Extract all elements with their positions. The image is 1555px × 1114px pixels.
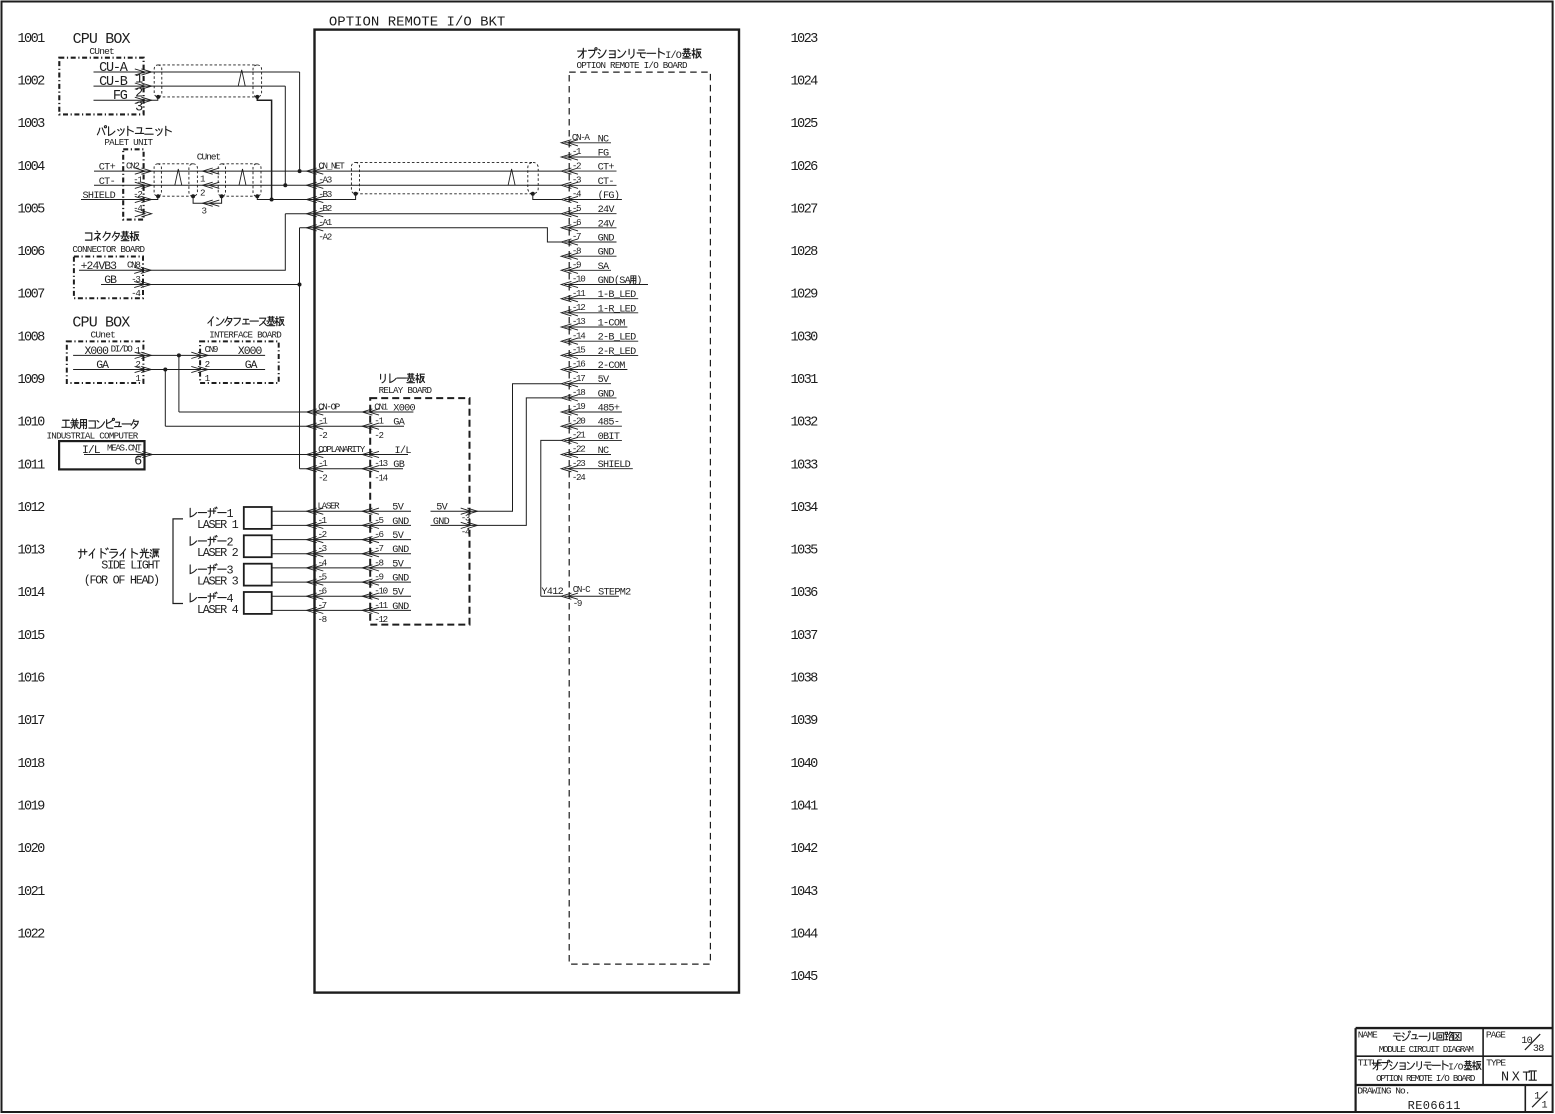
svg-text:-2: -2: [318, 472, 327, 483]
junction cable1 right: [191, 194, 195, 198]
wire laser2 5V: [272, 539, 411, 541]
svg-text:1030: 1030: [791, 330, 819, 345]
svg-text:1028: 1028: [791, 245, 819, 260]
svg-text:-7: -7: [374, 543, 383, 554]
wire GB to relay -13: [300, 468, 404, 470]
pin arrow FG: [135, 97, 152, 103]
svg-text:-8: -8: [572, 245, 581, 256]
junction internal shield right: [531, 192, 535, 196]
pin arrow CN-C: [561, 593, 578, 599]
wire GA: [73, 369, 265, 371]
svg-text:1015: 1015: [18, 629, 46, 644]
pin underline CN-A-5: [565, 213, 617, 215]
svg-text:1031: 1031: [791, 373, 819, 388]
svg-text:DI/DO: DI/DO: [111, 343, 134, 354]
pin underline CN-A-6: [565, 227, 617, 229]
wire I/L to relay: [84, 454, 408, 456]
svg-text:CUnet: CUnet: [197, 152, 221, 163]
svg-text:-B2: -B2: [318, 203, 331, 214]
svg-text:GND: GND: [392, 545, 409, 556]
component PALET UNIT connector box: [123, 149, 143, 219]
pin arrow LASER row 3: [307, 551, 324, 557]
svg-text:-9: -9: [572, 260, 581, 271]
svg-text:INTERFACE BOARD: INTERFACE BOARD: [209, 329, 282, 340]
svg-text:-9: -9: [374, 572, 383, 583]
svg-text:38: 38: [1533, 1044, 1544, 1055]
twisted pair symbol (palet cable 1): [175, 169, 182, 185]
pin underline CN-A-2: [565, 170, 617, 172]
svg-text:SHIELD: SHIELD: [598, 460, 631, 471]
kanji 用: [630, 276, 636, 284]
svg-text:I/L: I/L: [82, 445, 101, 457]
svg-text:1005: 1005: [18, 202, 46, 217]
pin underline CN-A-23: [565, 468, 633, 470]
svg-text:RE06611: RE06611: [1408, 1099, 1461, 1113]
junction GA riser: [163, 368, 167, 372]
svg-text:I/O: I/O: [1448, 1062, 1464, 1073]
wire 5V to CN-A-17: [431, 384, 562, 512]
svg-text:1038: 1038: [791, 672, 819, 687]
cable shield palet cable 2: [218, 164, 261, 196]
pin arrow CN-A-13: [561, 324, 578, 330]
svg-text:5V: 5V: [598, 375, 610, 386]
wire STEPM2 underline: [565, 595, 619, 597]
svg-text:1004: 1004: [18, 160, 46, 175]
svg-text:1017: 1017: [18, 714, 46, 729]
pin arrow CN-A-1: [561, 154, 578, 160]
svg-text:-2: -2: [318, 430, 327, 441]
junction shield right: [255, 95, 259, 99]
svg-text:1033: 1033: [791, 458, 819, 473]
pin arrow CN-A-18: [561, 395, 578, 401]
svg-text:1041: 1041: [791, 800, 819, 815]
svg-text:1043: 1043: [791, 885, 819, 900]
pin arrow CN-A-2: [561, 168, 578, 174]
pin arrow relay laser row 0: [362, 508, 379, 514]
svg-text:CT+: CT+: [99, 163, 116, 174]
pin arrow CN2-4: [135, 211, 152, 217]
svg-text:MODULE CIRCUIT DIAGRAM: MODULE CIRCUIT DIAGRAM: [1379, 1044, 1474, 1055]
wire Y412 to CN-C: [541, 595, 562, 597]
svg-text:1032: 1032: [791, 416, 819, 431]
sheet slash: [1532, 1092, 1547, 1108]
svg-text:LASER: LASER: [318, 501, 341, 512]
title モジュール回路図: [1393, 1031, 1461, 1041]
component LASER 1 head: [244, 507, 272, 529]
svg-text:2-R_LED: 2-R_LED: [598, 347, 636, 358]
pin arrow relay laser row 1: [362, 522, 379, 528]
svg-text:CN2: CN2: [126, 161, 139, 172]
pin arrow mid 1: [203, 168, 220, 174]
wire laser4 GND: [272, 609, 411, 611]
pin arrow COPLANARITY: [307, 451, 324, 457]
svg-text:1027: 1027: [791, 202, 819, 217]
wire GB: [101, 284, 300, 286]
svg-text:CT+: CT+: [598, 163, 615, 174]
svg-text:-12: -12: [572, 302, 585, 313]
svg-text:-13: -13: [572, 316, 585, 327]
pin arrow CN-A-20: [561, 423, 578, 429]
svg-text:GND: GND: [598, 234, 615, 245]
svg-text:RELAY BOARD: RELAY BOARD: [379, 385, 433, 396]
component CPU BOX CUnet connector box: [59, 58, 143, 115]
wire CU-A: [94, 71, 300, 73]
svg-text:(FOR OF HEAD): (FOR OF HEAD): [84, 573, 159, 587]
pin arrow CN-OP: [307, 409, 324, 415]
svg-text:GND: GND: [392, 517, 409, 528]
pin arrow CN-A-14: [561, 338, 578, 344]
twisted pair symbol (CPU cable): [238, 70, 245, 86]
pin arrow CN_NET A3: [307, 182, 324, 188]
cable shield palet cable 1: [154, 164, 197, 196]
wire CT- (palet to CN-A-3): [94, 184, 561, 186]
svg-text:GA: GA: [96, 360, 109, 372]
svg-text:GA: GA: [393, 418, 405, 429]
label コネクタ基板: [85, 231, 139, 241]
pin underline CN-A-1: [565, 156, 612, 158]
junction SHIELD-cable1: [156, 194, 160, 198]
svg-text:X000: X000: [393, 404, 415, 415]
svg-text:-9: -9: [573, 598, 582, 609]
svg-text:(FG): (FG): [598, 190, 620, 202]
svg-text:1024: 1024: [791, 74, 819, 89]
pin underline CN-A-22: [565, 454, 612, 456]
svg-text:1009: 1009: [18, 373, 46, 388]
pin arrow CN-A-6: [561, 225, 578, 231]
svg-text:1008: 1008: [18, 330, 46, 345]
svg-text:1011: 1011: [18, 458, 46, 473]
svg-text:-19: -19: [572, 401, 585, 412]
component LASER 4 head: [244, 592, 272, 614]
wire laser2 GND: [272, 553, 411, 555]
svg-text:-24: -24: [572, 472, 586, 483]
svg-text:LASER 1: LASER 1: [197, 518, 239, 532]
svg-text:GND: GND: [433, 517, 450, 528]
svg-text:GA: GA: [245, 360, 258, 372]
label レーザー4: [190, 592, 226, 602]
label インタフェース基板: [208, 316, 284, 325]
label 工業用コンピュータ: [62, 418, 138, 428]
pin arrow CN2-2 SHIELD: [135, 196, 152, 202]
svg-text:485+: 485+: [598, 404, 620, 415]
pin arrow CN-A-11: [561, 296, 578, 302]
svg-text:SHIELD: SHIELD: [83, 191, 116, 202]
pin underline CN-A-3: [565, 184, 617, 186]
wire GA riser down: [164, 370, 166, 427]
svg-text:1019: 1019: [18, 800, 46, 815]
svg-text:CN-A: CN-A: [572, 132, 590, 143]
svg-text:-5: -5: [318, 572, 327, 583]
svg-text:I/L: I/L: [395, 445, 412, 457]
svg-text:-18: -18: [572, 387, 585, 398]
svg-text:GB: GB: [393, 460, 404, 471]
pin arrow LASER row 5: [307, 579, 324, 585]
svg-text:GND: GND: [392, 602, 409, 613]
svg-text:-15: -15: [572, 345, 585, 356]
pin arrow CU-A: [135, 69, 152, 75]
svg-text:CN1: CN1: [374, 401, 388, 412]
wire FG to cable shield: [94, 97, 158, 100]
wire X000: [73, 354, 265, 356]
twisted pair symbol (internal cable): [508, 169, 515, 185]
svg-text:-11: -11: [374, 600, 388, 611]
pin underline CN-A-0: [565, 142, 612, 144]
svg-text:5V: 5V: [392, 531, 404, 542]
pin arrow X000 (CPU): [135, 352, 152, 358]
svg-text:1002: 1002: [18, 74, 46, 89]
svg-text:NAME: NAME: [1358, 1030, 1378, 1041]
svg-text:SIDE LIGHT: SIDE LIGHT: [101, 559, 160, 573]
pin arrow CN-A-15: [561, 352, 578, 358]
svg-text:1020: 1020: [18, 842, 46, 857]
pin arrow CN-A-19: [561, 409, 578, 415]
junction CU-A / CT+: [298, 169, 302, 173]
wire B2/24V row to CN-A-5: [285, 213, 561, 215]
wire CT+ (palet to CN-A-2): [94, 170, 561, 172]
pin arrow CN9 X000: [191, 352, 208, 358]
label レーザー3: [190, 564, 226, 574]
pin arrow relay-13 GB: [362, 466, 379, 472]
pin arrow GA (CPU): [135, 366, 152, 372]
svg-text:-2: -2: [374, 430, 383, 441]
svg-text:1007: 1007: [18, 288, 46, 303]
svg-text:-6: -6: [572, 217, 581, 228]
svg-text:1021: 1021: [18, 885, 46, 900]
bracket side light group: [173, 519, 183, 604]
component CONNECTOR BOARD box: [74, 257, 143, 299]
svg-text:-3: -3: [318, 543, 327, 554]
svg-text:10: 10: [1521, 1036, 1532, 1047]
svg-text:-10: -10: [572, 274, 585, 285]
svg-text:1: 1: [1534, 1092, 1540, 1103]
pin arrow COPLANARITY-1: [307, 466, 324, 472]
pin arrow relay right 5V: [461, 508, 478, 514]
svg-text:SA: SA: [598, 262, 610, 273]
pin underline CN-A-14: [565, 340, 639, 342]
junction internal shield left: [354, 192, 358, 196]
svg-text:LASER 2: LASER 2: [197, 546, 239, 560]
pin arrow CN-A-17: [561, 381, 578, 387]
svg-text:1012: 1012: [18, 501, 46, 516]
svg-text:-21: -21: [572, 430, 586, 441]
svg-text:-23: -23: [572, 458, 585, 469]
svg-text:1026: 1026: [791, 160, 819, 175]
pin arrow CN-A-9: [561, 267, 578, 273]
pin underline CN-A-4: [565, 199, 622, 201]
pin arrow LASER row 0: [307, 508, 324, 514]
svg-text:OPTION REMOTE I/O BOARD: OPTION REMOTE I/O BOARD: [577, 60, 688, 71]
wire laser3 5V: [272, 567, 411, 569]
pin underline CN-A-18: [565, 397, 617, 399]
svg-text:-A2: -A2: [318, 231, 331, 242]
svg-text:-8: -8: [318, 614, 327, 625]
wire CU-B riser: [284, 86, 286, 185]
svg-text:CU-A: CU-A: [99, 61, 129, 76]
pin arrow CN2 CT+: [135, 168, 152, 174]
svg-text:1014: 1014: [18, 586, 46, 601]
label オプションリモートI/O基板: [578, 48, 702, 62]
pin underline CN-A-20: [565, 425, 622, 427]
pin arrow CN1: [362, 409, 379, 415]
svg-text:-12: -12: [374, 614, 387, 625]
pin arrow LASER row 1: [307, 522, 324, 528]
svg-text:-5: -5: [572, 203, 581, 214]
svg-text:-22: -22: [572, 444, 585, 455]
svg-text:+24VB3: +24VB3: [81, 261, 117, 273]
pin arrow LASER row 6: [307, 593, 324, 599]
svg-text:-7: -7: [318, 600, 327, 611]
svg-text:GND: GND: [598, 389, 615, 400]
svg-text:-8: -8: [374, 557, 383, 568]
pin underline CN-A-15: [565, 354, 639, 356]
svg-text:-5: -5: [374, 515, 383, 526]
svg-text:GND: GND: [598, 248, 615, 259]
component LASER 2 head: [244, 535, 272, 557]
junction shield riser / B3: [270, 198, 274, 202]
svg-text:CN8: CN8: [127, 260, 140, 271]
svg-text:GND(SA: GND(SA: [598, 275, 632, 287]
wire X000 to relay CN1: [179, 411, 414, 413]
svg-text:1029: 1029: [791, 288, 819, 303]
wire cable2 shield to B3 row: [257, 196, 271, 199]
pin arrow CN-A-12: [561, 310, 578, 316]
pin arrow relay I/L: [362, 451, 379, 457]
pin underline CN-A-7: [565, 241, 617, 243]
svg-text:1-COM: 1-COM: [598, 319, 626, 330]
svg-text:1-R_LED: 1-R_LED: [598, 304, 636, 315]
junction FG-shield left: [156, 95, 160, 99]
svg-text:485-: 485-: [598, 418, 620, 429]
svg-text:-14: -14: [572, 330, 586, 341]
svg-text:-A3: -A3: [318, 175, 331, 186]
wire GND to CN-A-18: [431, 398, 562, 526]
svg-text:1003: 1003: [18, 117, 46, 132]
svg-text:1-B_LED: 1-B_LED: [598, 290, 636, 301]
svg-text:1036: 1036: [791, 586, 819, 601]
svg-text:-7: -7: [572, 231, 581, 242]
pin underline CN-A-12: [565, 312, 639, 314]
junction CU-B / CT-: [283, 183, 287, 187]
svg-text:STEPM2: STEPM2: [598, 588, 631, 599]
label レーザー2: [190, 536, 226, 546]
svg-text:-13: -13: [374, 458, 387, 469]
pin arrow CN8 +24VB3: [134, 267, 151, 273]
wire SHIELD to cable1 shield: [81, 196, 158, 199]
svg-text:1037: 1037: [791, 629, 819, 644]
svg-text:-20: -20: [572, 415, 585, 426]
pin underline CN-A-21: [565, 439, 622, 441]
pin underline CN-A-9: [565, 269, 612, 271]
pin underline CN-A-10: [565, 284, 649, 286]
pin arrow CN9-2 GA: [191, 366, 208, 372]
pin arrow computer I/L: [136, 451, 153, 457]
pin arrow relay laser row 5: [362, 579, 379, 585]
svg-text:1039: 1039: [791, 714, 819, 729]
wire +24VB3 riser to B2 row: [79, 214, 285, 271]
pin underline CN-A-11: [565, 298, 639, 300]
svg-text:CT-: CT-: [598, 177, 614, 188]
wire laser1 GND: [272, 524, 411, 526]
svg-text:COPLANARITY: COPLANARITY: [318, 444, 366, 455]
svg-text:0BIT: 0BIT: [598, 432, 620, 443]
pin arrow relay laser row 2: [362, 537, 379, 543]
svg-text:1042: 1042: [791, 842, 819, 857]
svg-text:1040: 1040: [791, 757, 819, 772]
svg-text:1035: 1035: [791, 544, 819, 559]
pin arrow CN_NET CN_NET: [307, 168, 324, 174]
svg-text:-16: -16: [572, 359, 585, 370]
svg-text:OPTION REMOTE I/O BKT: OPTION REMOTE I/O BKT: [329, 14, 505, 30]
svg-text:5V: 5V: [392, 559, 404, 570]
svg-text:CN-OP: CN-OP: [318, 401, 341, 412]
wire X000 riser down: [178, 355, 180, 412]
wire B3 row to internal shield left: [272, 194, 356, 200]
svg-text:5V: 5V: [392, 503, 404, 514]
component INTERFACE BOARD box: [200, 341, 279, 383]
svg-text:CN-C: CN-C: [573, 584, 591, 595]
pin arrow CN-A-A: [561, 140, 578, 146]
pin arrow mid 3: [203, 200, 220, 206]
svg-text:-A1: -A1: [318, 217, 332, 228]
cable shield CN_NET internal: [351, 162, 538, 193]
svg-text:X000: X000: [238, 346, 263, 358]
title block: [1356, 1028, 1553, 1112]
svg-text:-17: -17: [572, 373, 585, 384]
svg-text:-2: -2: [572, 160, 581, 171]
svg-text:): ): [636, 275, 641, 287]
wire GA to relay CN1-1: [165, 425, 404, 427]
enclosure OPTION REMOTE I/O BKT box: [315, 30, 740, 993]
pin arrow relay right GND: [461, 522, 478, 528]
svg-text:CUnet: CUnet: [89, 46, 114, 57]
pin arrow relay laser row 4: [362, 565, 379, 571]
svg-text:CN9: CN9: [205, 344, 218, 355]
svg-text:1: 1: [1542, 1101, 1548, 1112]
pin arrow LASER row 4: [307, 565, 324, 571]
left grid numbers 1001-1022: [18, 32, 46, 943]
svg-text:-B3: -B3: [318, 189, 331, 200]
pin arrow CN-A-8: [561, 253, 578, 259]
wire Y412 riser to CN-A-21 0BIT: [541, 440, 562, 596]
board OPTION REMOTE I/O BOARD outline: [569, 72, 710, 964]
pin arrow CN-A-7: [561, 239, 578, 245]
wire ground riser x=299.5: [299, 228, 301, 469]
svg-text:1023: 1023: [791, 32, 819, 47]
wire shield/FG down to -B3 net: [257, 97, 271, 200]
svg-text:FG: FG: [113, 89, 128, 104]
pin arrow CN_NET B3: [307, 196, 324, 202]
svg-text:24V: 24V: [598, 219, 616, 230]
svg-text:-11: -11: [572, 288, 586, 299]
svg-text:GB: GB: [104, 275, 117, 287]
svg-text:1025: 1025: [791, 117, 819, 132]
svg-text:2-B_LED: 2-B_LED: [598, 333, 636, 344]
svg-text:5V: 5V: [436, 503, 448, 514]
pin arrow CN8-3 GB: [134, 281, 151, 287]
svg-text:LASER 3: LASER 3: [197, 575, 239, 589]
component INDUSTRIAL COMPUTER box: [59, 441, 144, 469]
pin arrow LASER row 7: [307, 607, 324, 613]
svg-text:1001: 1001: [18, 32, 46, 47]
junction cable2 left: [220, 194, 224, 198]
junction cable2 right: [255, 194, 259, 198]
pin arrow CN-A-21: [561, 437, 578, 443]
svg-text:NC: NC: [598, 446, 609, 457]
pin underline CN-A-16: [565, 369, 628, 371]
pin arrow CN1-1: [362, 423, 379, 429]
pin arrow CN_NET B2: [307, 211, 324, 217]
page slash: [1525, 1034, 1540, 1050]
